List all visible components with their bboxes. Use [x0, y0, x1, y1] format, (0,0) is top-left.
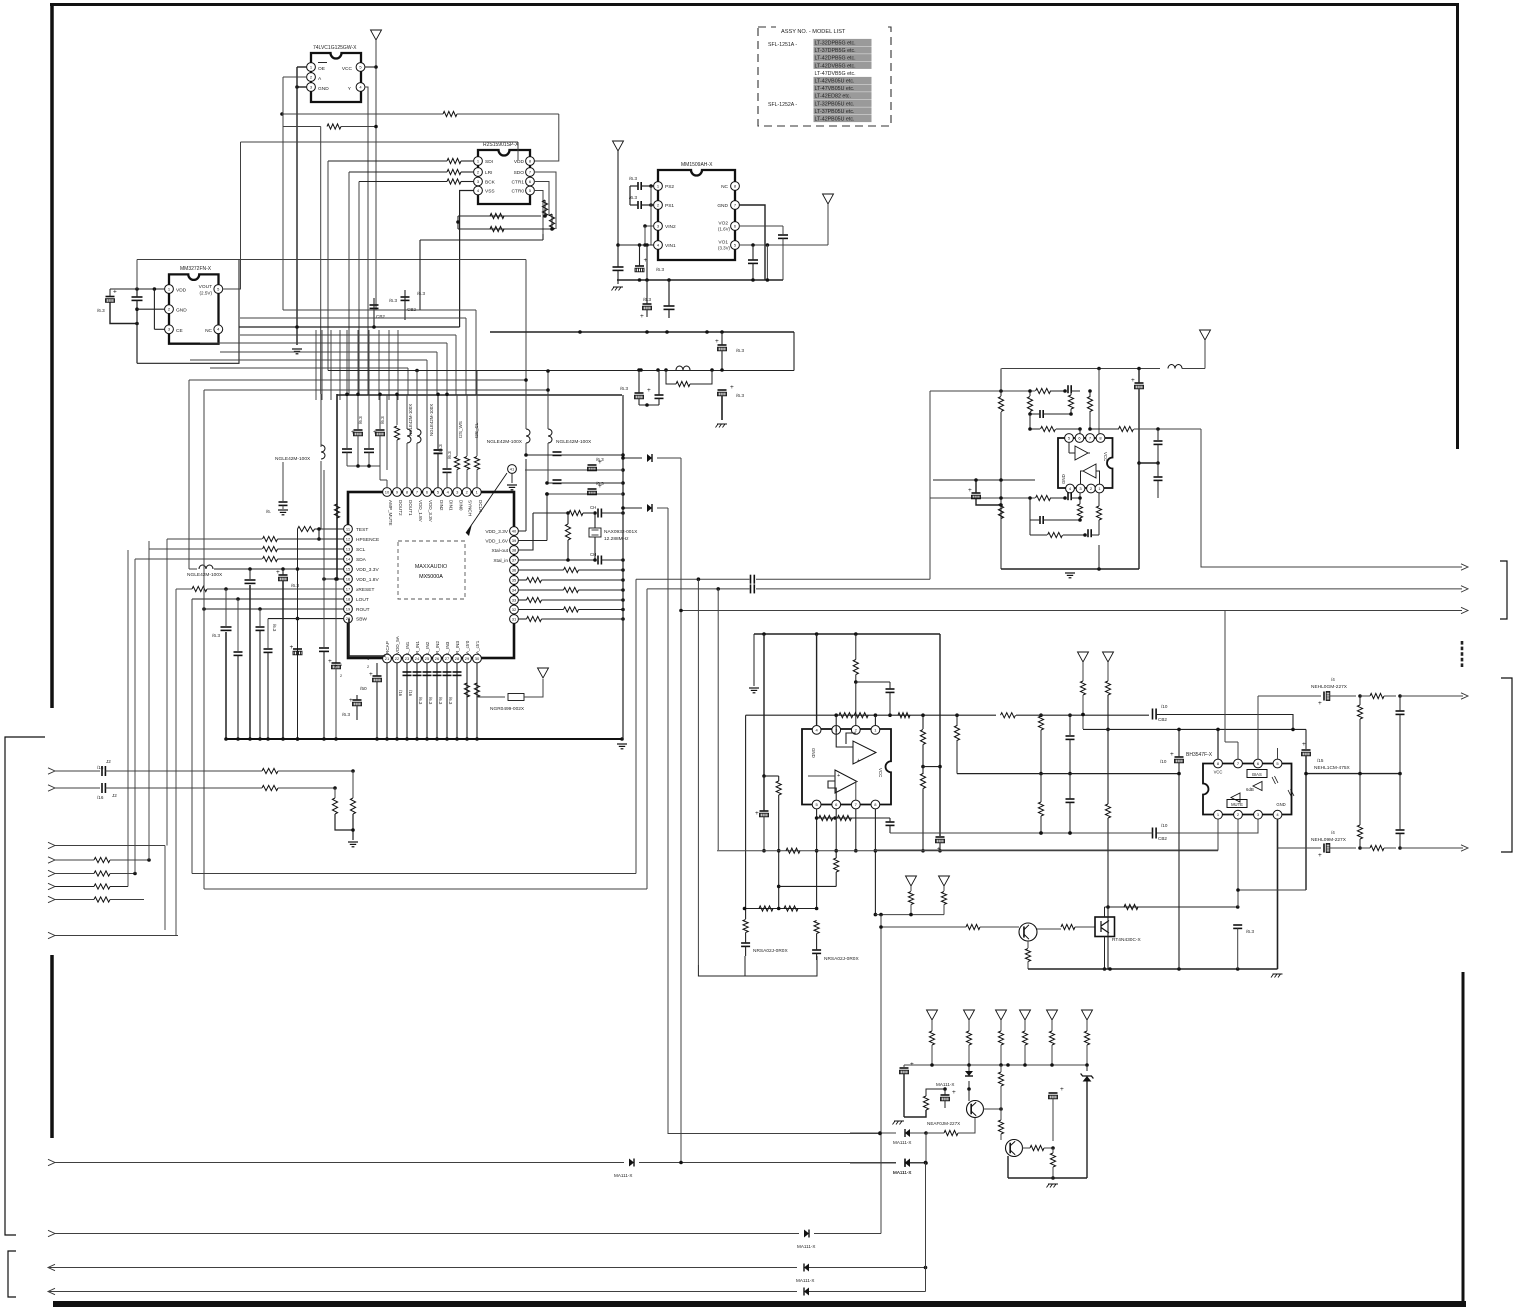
svg-text:NGR0499-002X: NGR0499-002X — [490, 706, 525, 712]
svg-text:+: + — [1302, 741, 1306, 748]
svg-text:VSS: VSS — [485, 189, 495, 195]
svg-text:/6.3: /6.3 — [389, 298, 397, 304]
svg-text:BH3547F-X: BH3547F-X — [1186, 752, 1213, 758]
svg-text:1: 1 — [340, 663, 342, 667]
svg-text:17: 17 — [346, 586, 351, 591]
svg-text:MAXXAUDIO: MAXXAUDIO — [415, 564, 447, 570]
svg-text:+: + — [1170, 751, 1174, 758]
svg-text:SFL-1252A -: SFL-1252A - — [768, 102, 797, 108]
svg-text:LT-47VB05U etc.: LT-47VB05U etc. — [815, 86, 855, 92]
svg-text:SYNCH: SYNCH — [468, 500, 473, 516]
svg-text:/6.3: /6.3 — [596, 457, 604, 462]
svg-text:29: 29 — [465, 656, 470, 661]
svg-text:37: 37 — [512, 557, 517, 562]
svg-text:+: + — [647, 387, 651, 394]
svg-text:VDD_3.3V: VDD_3.3V — [485, 529, 508, 535]
svg-text:10: 10 — [385, 489, 390, 494]
svg-text:ASSY NO. - MODEL LIST: ASSY NO. - MODEL LIST — [781, 29, 846, 35]
svg-text:NC: NC — [205, 328, 212, 334]
svg-text:L_IN1: L_IN1 — [405, 641, 410, 654]
svg-text:19: 19 — [346, 606, 351, 611]
svg-text:/16: /16 — [398, 690, 403, 697]
svg-text:MM1509AH-X: MM1509AH-X — [681, 162, 713, 168]
svg-text:VCC: VCC — [878, 768, 883, 777]
svg-text:+: + — [334, 664, 338, 670]
svg-text:CTR0: CTR0 — [511, 189, 524, 195]
svg-text:24: 24 — [415, 656, 420, 661]
svg-text:VCC: VCC — [342, 66, 353, 72]
svg-text:LT-32PB05U etc.: LT-32PB05U etc. — [815, 101, 855, 107]
svg-text:+: + — [113, 289, 117, 296]
svg-text:DIN2: DIN2 — [439, 500, 444, 511]
svg-text:Xtal-out: Xtal-out — [491, 548, 508, 554]
svg-text:NGLE42M-100X: NGLE42M-100X — [429, 404, 434, 436]
svg-text:CB2: CB2 — [1158, 717, 1167, 722]
svg-text:+: + — [968, 487, 972, 494]
svg-text:+: + — [1318, 852, 1322, 859]
svg-text:DCLK: DCLK — [478, 500, 483, 513]
svg-text:+: + — [755, 810, 759, 817]
svg-text:/6.3: /6.3 — [629, 176, 637, 182]
svg-text:/6.3: /6.3 — [272, 624, 277, 632]
svg-text:NC: NC — [721, 184, 728, 190]
svg-text:SCL: SCL — [356, 547, 366, 553]
svg-text:RCAP: RCAP — [385, 641, 390, 654]
svg-text:VDD_1.6V: VDD_1.6V — [485, 539, 508, 545]
svg-text:MA111-X: MA111-X — [893, 1140, 911, 1145]
svg-text:/6.3: /6.3 — [417, 291, 425, 297]
svg-text:HPSENCE: HPSENCE — [356, 537, 379, 543]
svg-text:VOUT: VOUT — [199, 284, 212, 290]
svg-text:/16: /16 — [408, 690, 413, 697]
svg-text:SDI: SDI — [485, 159, 493, 165]
svg-text:38: 38 — [512, 547, 517, 552]
svg-text:R_IN2: R_IN2 — [435, 641, 440, 654]
svg-text:27: 27 — [445, 656, 450, 661]
svg-text:J2: J2 — [112, 793, 117, 798]
svg-text:GND: GND — [318, 86, 329, 92]
svg-text:40: 40 — [512, 528, 517, 533]
svg-text:CB2: CB2 — [1158, 836, 1167, 841]
svg-text:/6.3: /6.3 — [1246, 929, 1254, 935]
svg-text:BIAS: BIAS — [1252, 772, 1262, 777]
svg-text:NRSA02J-0R0X: NRSA02J-0R0X — [824, 956, 859, 962]
svg-text:+: + — [640, 313, 644, 320]
svg-text:12: 12 — [346, 536, 351, 541]
svg-text:MUTE: MUTE — [1231, 802, 1243, 807]
svg-text:DIN1: DIN1 — [449, 500, 454, 511]
svg-text:(1.6V): (1.6V) — [718, 227, 730, 232]
svg-text:GND: GND — [717, 203, 728, 209]
svg-text:/6.3: /6.3 — [596, 481, 604, 486]
svg-text:VDD: VDD — [514, 159, 525, 165]
svg-text:/6.3: /6.3 — [428, 697, 433, 705]
svg-text:(3.3V): (3.3V) — [718, 246, 730, 251]
svg-text:/10: /10 — [1160, 759, 1167, 764]
svg-text:LRI: LRI — [485, 170, 492, 176]
svg-text:NGLE42M-100X: NGLE42M-100X — [556, 439, 592, 445]
svg-text:2: 2 — [340, 674, 342, 678]
svg-text:CE: CE — [176, 328, 183, 334]
svg-text:18: 18 — [346, 596, 351, 601]
svg-text:NEHL09M-227X: NEHL09M-227X — [1311, 837, 1347, 843]
svg-text:41: 41 — [510, 466, 515, 471]
svg-text:MA111-X: MA111-X — [893, 1170, 911, 1175]
svg-text:26: 26 — [435, 656, 440, 661]
svg-text:NEHL0GM-227X: NEHL0GM-227X — [1311, 684, 1348, 690]
svg-text:+: + — [952, 1089, 956, 1096]
svg-text:RT4N430C-X: RT4N430C-X — [1112, 937, 1142, 943]
svg-text:16: 16 — [346, 576, 351, 581]
svg-text:xRESET: xRESET — [356, 587, 374, 593]
svg-text:CTR1: CTR1 — [511, 180, 524, 186]
svg-text:+: + — [910, 1061, 914, 1068]
svg-text:NGLE42M-100X: NGLE42M-100X — [408, 404, 413, 436]
svg-text:NGLE42M-100X: NGLE42M-100X — [487, 439, 523, 445]
svg-text:NEAF0JM-227X: NEAF0JM-227X — [927, 1121, 960, 1126]
svg-text:+: + — [715, 338, 719, 345]
svg-text:12.288MHz: 12.288MHz — [604, 536, 629, 542]
svg-text:/6.3: /6.3 — [620, 386, 628, 392]
svg-text:VIN1: VIN1 — [665, 243, 676, 249]
svg-text:VCC: VCC — [1214, 770, 1223, 775]
svg-text:/6.3: /6.3 — [438, 697, 443, 705]
svg-text:TEST: TEST — [356, 527, 368, 533]
svg-text:36: 36 — [512, 567, 517, 572]
svg-text:LT-42DVB5G etc.: LT-42DVB5G etc. — [815, 63, 856, 69]
svg-text:/6.3: /6.3 — [447, 451, 452, 459]
svg-text:+: + — [351, 429, 355, 436]
svg-text:23: 23 — [405, 656, 410, 661]
svg-text:/4: /4 — [1331, 830, 1335, 835]
svg-text:GND: GND — [1061, 474, 1066, 484]
svg-text:LT-32DPB5G etc.: LT-32DPB5G etc. — [815, 41, 856, 47]
svg-text:/6.3: /6.3 — [736, 348, 744, 354]
svg-text:L_IN2: L_IN2 — [425, 641, 430, 654]
svg-text:31: 31 — [512, 616, 517, 621]
svg-text:/15: /15 — [1317, 758, 1324, 763]
svg-text:MA111-X: MA111-X — [614, 1173, 632, 1178]
svg-text:VDD_1.8V: VDD_1.8V — [356, 577, 379, 583]
svg-text:+: + — [730, 384, 734, 391]
svg-text:SDA: SDA — [356, 557, 367, 563]
svg-text:R_IN3: R_IN3 — [455, 641, 460, 654]
svg-text:A_ctr0: A_ctr0 — [465, 640, 470, 654]
svg-text:NAX0932-001X: NAX0932-001X — [604, 529, 638, 535]
svg-text:I2S_CL: I2S_CL — [474, 422, 479, 438]
svg-text:(2.5V): (2.5V) — [199, 291, 212, 296]
svg-text:VDD_1.8V: VDD_1.8V — [418, 500, 423, 523]
svg-text:CB2: CB2 — [407, 307, 416, 312]
svg-text:30: 30 — [475, 656, 480, 661]
svg-text:28: 28 — [455, 656, 460, 661]
svg-text:VDD_3.3V: VDD_3.3V — [356, 567, 379, 573]
svg-text:DIN0: DIN0 — [458, 500, 463, 511]
svg-text:VDD_3.3V: VDD_3.3V — [428, 500, 433, 523]
svg-text:/6.3: /6.3 — [212, 633, 220, 639]
svg-text:25: 25 — [425, 656, 430, 661]
svg-text:LT-37PB05U etc.: LT-37PB05U etc. — [815, 109, 855, 115]
svg-text:CH: CH — [590, 505, 596, 510]
svg-text:MA111-X: MA111-X — [797, 1244, 815, 1249]
svg-text:AMP_MUTE: AMP_MUTE — [388, 500, 393, 526]
svg-text:Xtal_in: Xtal_in — [493, 558, 508, 564]
svg-text:J2: J2 — [106, 759, 111, 764]
svg-text:L_IN3: L_IN3 — [445, 641, 450, 654]
svg-text:LT-42PB05U etc.: LT-42PB05U etc. — [815, 117, 855, 123]
svg-text:74LVC1G125GW-X: 74LVC1G125GW-X — [313, 45, 357, 51]
svg-text:+: + — [328, 658, 332, 665]
svg-text:I2S_WS: I2S_WS — [458, 421, 463, 438]
svg-text:GND: GND — [176, 308, 187, 314]
svg-text:/16: /16 — [97, 765, 104, 770]
svg-text:33: 33 — [512, 597, 517, 602]
svg-text:MA111-X: MA111-X — [796, 1278, 814, 1283]
svg-text:+: + — [373, 429, 377, 436]
svg-text:+: + — [349, 697, 353, 704]
svg-text:+: + — [1060, 1086, 1064, 1093]
svg-text:+: + — [290, 644, 294, 651]
svg-text:/16: /16 — [97, 795, 104, 800]
svg-text:/6.3: /6.3 — [291, 583, 299, 589]
svg-text:/6.3: /6.3 — [418, 697, 423, 705]
svg-text:DOUT2: DOUT2 — [398, 500, 403, 516]
svg-text:22: 22 — [395, 656, 400, 661]
svg-text:6dB: 6dB — [1246, 787, 1254, 792]
svg-text:35: 35 — [512, 577, 517, 582]
svg-text:/6.3: /6.3 — [97, 308, 105, 313]
svg-text:LOUT: LOUT — [356, 597, 369, 603]
svg-text:13: 13 — [346, 546, 351, 551]
svg-text:/10: /10 — [1161, 823, 1168, 828]
svg-text:/6.3: /6.3 — [656, 267, 664, 273]
svg-text:R_IN1: R_IN1 — [415, 641, 420, 654]
svg-text:R2S15901SP-X: R2S15901SP-X — [483, 142, 519, 148]
svg-text:PS1: PS1 — [665, 203, 674, 209]
svg-text:DOUT1: DOUT1 — [408, 500, 413, 516]
svg-text:NRSA02J-0R0X: NRSA02J-0R0X — [753, 948, 788, 954]
svg-text:+: + — [369, 671, 373, 678]
svg-text:A_ctr1: A_ctr1 — [475, 640, 480, 654]
svg-text:+: + — [857, 758, 860, 764]
svg-text:MX5000A: MX5000A — [419, 574, 443, 580]
svg-text:/6.3: /6.3 — [342, 712, 350, 718]
svg-text:14: 14 — [346, 556, 351, 561]
svg-text:/6.3: /6.3 — [736, 393, 744, 399]
svg-text:OE: OE — [318, 66, 325, 72]
svg-text:/6.3: /6.3 — [358, 416, 363, 424]
svg-text:/4: /4 — [1331, 677, 1335, 682]
svg-text:ROUT: ROUT — [356, 607, 370, 613]
svg-text:LT-47DVB5G etc.: LT-47DVB5G etc. — [815, 71, 856, 77]
svg-text:CH: CH — [590, 552, 596, 557]
svg-text:LT-42DPB5G etc.: LT-42DPB5G etc. — [815, 56, 856, 62]
svg-text:VDD: VDD — [176, 288, 187, 294]
svg-text:BCK: BCK — [485, 180, 496, 186]
svg-text:+: + — [1131, 377, 1135, 384]
svg-text:PS2: PS2 — [665, 184, 674, 190]
svg-text:NGLE42M-100X: NGLE42M-100X — [275, 456, 311, 462]
svg-text:+: + — [1318, 700, 1322, 707]
svg-text:/10: /10 — [1161, 704, 1168, 709]
svg-text:NGLE42M-100X: NGLE42M-100X — [187, 572, 223, 578]
svg-text:SFL-1251A -: SFL-1251A - — [768, 42, 797, 48]
svg-text:VIN2: VIN2 — [665, 224, 676, 230]
svg-text:34: 34 — [512, 587, 517, 592]
svg-text:LT-42VB05U etc.: LT-42VB05U etc. — [815, 79, 855, 85]
svg-text:39: 39 — [512, 538, 517, 543]
svg-text:MA111-X: MA111-X — [936, 1082, 954, 1087]
svg-text:VDD_5A: VDD_5A — [395, 635, 400, 654]
svg-text:SBW: SBW — [356, 617, 367, 623]
svg-text:/6.3: /6.3 — [438, 444, 443, 452]
svg-text:LT-37DPB5G etc.: LT-37DPB5G etc. — [815, 48, 856, 54]
svg-text:15: 15 — [346, 566, 351, 571]
svg-text:MM3272FN-X: MM3272FN-X — [180, 266, 212, 272]
svg-text:/50: /50 — [360, 686, 367, 692]
svg-text:+: + — [276, 569, 280, 576]
svg-text:/6.3: /6.3 — [380, 416, 385, 424]
svg-text:/6.3: /6.3 — [448, 697, 453, 705]
svg-text:NEHL1CM-475X: NEHL1CM-475X — [1314, 765, 1351, 771]
svg-text:SDO: SDO — [514, 170, 525, 176]
svg-text:LT-42ED82 etc.: LT-42ED82 etc. — [815, 94, 851, 100]
svg-text:+: + — [837, 773, 840, 779]
svg-text:GND: GND — [811, 748, 816, 758]
svg-text:21: 21 — [385, 656, 390, 661]
svg-text:VCC: VCC — [1103, 452, 1108, 461]
svg-text:GND: GND — [1276, 802, 1285, 807]
svg-text:32: 32 — [512, 607, 517, 612]
svg-text:/6.: /6. — [266, 509, 271, 514]
